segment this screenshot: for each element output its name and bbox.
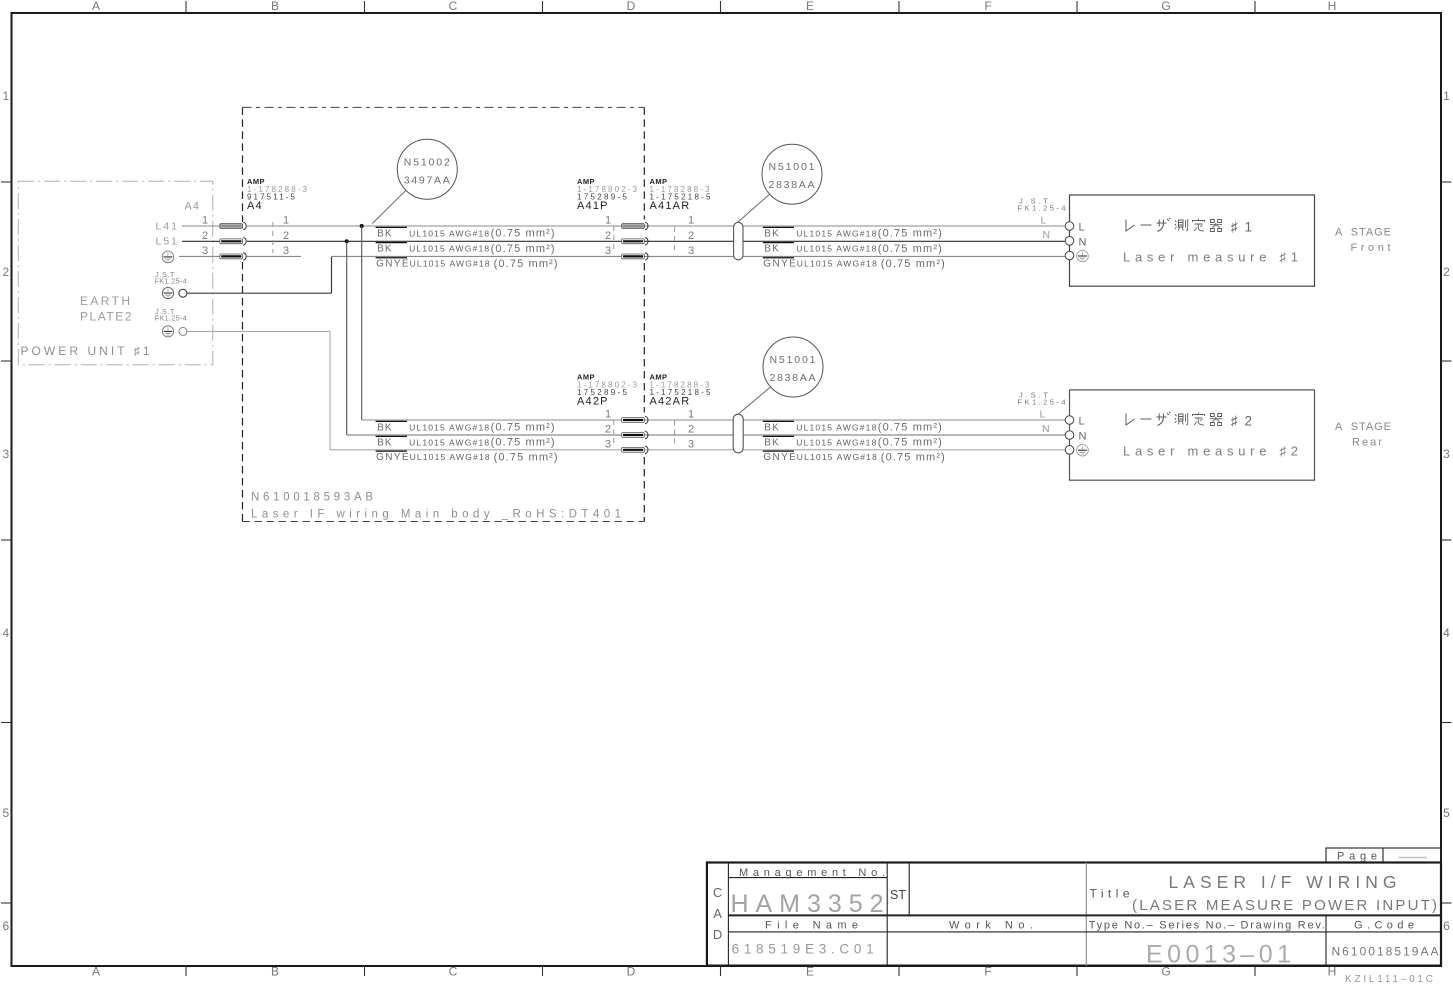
connector A42P (AMP 1-178802-3 / 175289-5) [577, 373, 638, 451]
svg-text:(0.75 mm²): (0.75 mm²) [878, 422, 942, 434]
svg-text:1: 1 [688, 409, 694, 421]
svg-text:(0.75 mm²): (0.75 mm²) [491, 422, 555, 434]
svg-text:A41AR: A41AR [650, 200, 691, 212]
svg-text:A4: A4 [185, 201, 200, 213]
svg-text:N51001: N51001 [770, 354, 817, 366]
svg-text:BK: BK [764, 422, 779, 433]
cable clamp bank2 [733, 414, 743, 453]
svg-text:C: C [449, 965, 458, 979]
svg-text:5: 5 [1443, 806, 1450, 820]
svg-text:3497AA: 3497AA [404, 174, 451, 186]
wire label BK bank2 right row2 [763, 436, 942, 448]
svg-text:1: 1 [688, 215, 694, 227]
svg-text:L: L [1040, 409, 1046, 421]
node A4 terminal block label [185, 201, 200, 213]
svg-text:3: 3 [688, 245, 694, 257]
svg-text:A42AR: A42AR [650, 396, 691, 408]
svg-text:1: 1 [1443, 89, 1450, 103]
svg-text:A42P: A42P [577, 396, 609, 408]
svg-text:3: 3 [2, 447, 9, 461]
wire label BK bank1 left row1 [376, 227, 555, 239]
svg-text:(0.75 mm²): (0.75 mm²) [878, 228, 942, 240]
svg-text:2: 2 [605, 424, 611, 436]
node L wire label (bank2) [1040, 409, 1046, 421]
drawing format code KZIL111-01C [1345, 974, 1433, 985]
svg-text:A STAGE: A STAGE [1335, 421, 1391, 433]
label A STAGE Rear [1335, 421, 1391, 449]
wire L41 [156, 220, 221, 232]
connector A4 (AMP 1-178288-3 / 917511-5) [202, 177, 308, 260]
svg-text:6: 6 [2, 919, 9, 933]
title block work no [949, 919, 1033, 931]
svg-text:Title: Title [1090, 887, 1130, 901]
svg-text:6: 6 [1443, 919, 1450, 933]
svg-text:2: 2 [202, 230, 208, 242]
svg-text:1: 1 [605, 409, 611, 421]
svg-text:(0.75 mm²): (0.75 mm²) [881, 258, 945, 270]
svg-text:G: G [1161, 0, 1170, 13]
wire bank2 row PE [330, 449, 1066, 451]
wire label BK bank2 left row1 [376, 421, 555, 433]
wire label GNYE bank2 right row3 [763, 451, 945, 463]
svg-text:2: 2 [283, 230, 289, 242]
terminal label J.S.T FK1.25-4 (laser measure #1) [1018, 196, 1066, 212]
title block page cell [1326, 848, 1441, 863]
wire stub A4 pin3 [247, 255, 301, 257]
wire label BK bank1 right row1 [763, 227, 942, 239]
svg-text:L41: L41 [156, 220, 178, 232]
svg-text:5: 5 [2, 806, 9, 820]
title block management no [731, 867, 886, 918]
node L wire label (bank1) [1041, 215, 1047, 227]
svg-text:N610018519AA: N610018519AA [1332, 945, 1439, 959]
wire feed junction row1 to bank2 row1 [362, 226, 1066, 420]
title block file name [732, 919, 874, 956]
svg-text:4: 4 [1443, 626, 1450, 640]
wire earth plate upper to GNYE #1 [187, 256, 331, 293]
wire L51 [156, 236, 221, 248]
svg-text:BK: BK [377, 422, 392, 433]
svg-text:D: D [713, 927, 722, 942]
balloon N51001 2838AA (bank2) [738, 337, 823, 414]
title block frame [707, 863, 1441, 966]
main body part number N610018593AB [251, 492, 373, 504]
svg-text:2: 2 [688, 424, 694, 436]
svg-text:BK: BK [764, 228, 779, 239]
svg-text:C: C [449, 0, 458, 13]
wire bank1 row N (pin2) to laser measure #1 [247, 240, 1066, 242]
svg-text:ST: ST [890, 888, 906, 902]
svg-text:L51: L51 [156, 236, 178, 248]
label EARTH PLATE2 [80, 294, 132, 324]
laser measure #2 unit box [1065, 390, 1314, 480]
svg-text:Rear: Rear [1352, 437, 1382, 449]
svg-text:3: 3 [1443, 447, 1450, 461]
svg-text:C: C [713, 885, 722, 900]
svg-text:BK: BK [764, 437, 779, 448]
svg-text:3: 3 [605, 245, 611, 257]
node junction row2 [345, 239, 349, 243]
svg-text:N51002: N51002 [404, 156, 451, 168]
laser IF wiring main body boundary (dashed box) [243, 107, 645, 521]
connector A41AR (AMP 1-178288-3 / 1-175218-5) [622, 177, 711, 260]
label POWER UNIT #1 [21, 344, 150, 358]
wire label BK bank1 right row2 [763, 243, 942, 255]
svg-text:L: L [1079, 222, 1085, 234]
title block G.Code [1332, 919, 1439, 958]
connector A42AR (AMP 1-178288-3 / 1-175218-5) [622, 373, 711, 454]
svg-text:N: N [1079, 431, 1087, 443]
svg-text:(0.75 mm²): (0.75 mm²) [494, 451, 558, 463]
svg-text:2: 2 [605, 230, 611, 242]
svg-text:A4: A4 [247, 200, 263, 212]
wire label GNYE bank1 right row3 [763, 258, 945, 270]
svg-text:FK1.25-4: FK1.25-4 [155, 277, 187, 286]
svg-text:(0.75 mm²): (0.75 mm²) [881, 451, 945, 463]
wire earth plate lower to GNYE #2 [187, 331, 330, 449]
wire label BK bank2 right row1 [763, 421, 942, 433]
wire bank1 row PE to laser measure #1 [332, 255, 1066, 257]
svg-text:N: N [1043, 229, 1051, 241]
svg-text:(0.75 mm²): (0.75 mm²) [491, 243, 555, 255]
svg-text:H: H [1328, 0, 1337, 13]
svg-text:L: L [1079, 416, 1085, 428]
svg-text:(LASER MEASURE POWER INPUT): (LASER MEASURE POWER INPUT) [1132, 897, 1437, 914]
svg-text:BK: BK [377, 244, 392, 255]
svg-text:N: N [1042, 423, 1050, 435]
svg-text:A41P: A41P [577, 200, 609, 212]
svg-text:N: N [1079, 237, 1087, 249]
wire feed junction row2 to bank2 row2 [347, 241, 1066, 435]
svg-text:♯ 2: ♯ 2 [1231, 414, 1254, 429]
svg-text:A STAGE: A STAGE [1335, 227, 1391, 239]
svg-text:KZIL111–01C: KZIL111–01C [1345, 974, 1433, 985]
label A STAGE Front [1335, 227, 1391, 255]
wire label GNYE bank2 left row3 [376, 451, 558, 463]
svg-text:3: 3 [283, 245, 289, 257]
node N wire label (bank1) [1043, 229, 1051, 241]
title block type/series/drawing rev [1089, 920, 1325, 969]
title block ST cell [890, 888, 906, 902]
svg-text:(0.75 mm²): (0.75 mm²) [491, 437, 555, 449]
svg-text:E: E [806, 0, 814, 13]
svg-text:B: B [271, 965, 279, 979]
svg-text:(0.75 mm²): (0.75 mm²) [491, 228, 555, 240]
svg-text:B: B [271, 0, 279, 13]
power unit #1 enclosure (chain line box) [18, 181, 213, 364]
svg-text:F: F [984, 0, 991, 13]
wire bank1 row L (pin1) to laser measure #1 [247, 225, 1066, 227]
terminal J.S.T FK1.25-4 (earth plate upper) [155, 270, 187, 299]
balloon N51002 3497AA [372, 139, 457, 223]
svg-text:♯ 1: ♯ 1 [1231, 220, 1254, 235]
svg-text:2: 2 [2, 265, 9, 279]
svg-text:2: 2 [688, 230, 694, 242]
svg-text:BK: BK [764, 244, 779, 255]
svg-text:(0.75 mm²): (0.75 mm²) [878, 243, 942, 255]
connector A41P (AMP 1-178802-3 / 175289-5) [577, 177, 638, 257]
terminal label J.S.T FK1.25-4 (laser measure #2) [1018, 390, 1066, 406]
node N wire label (bank2) [1042, 423, 1050, 435]
svg-text:Type No.– Series No.– Drawing: Type No.– Series No.– Drawing Rev. [1089, 920, 1325, 932]
svg-text:2838AA: 2838AA [769, 179, 816, 191]
wire label BK bank1 left row2 [376, 243, 555, 255]
cable clamp bank1 [734, 222, 743, 260]
main body description Laser IF wiring Main body _RoHS:DT401 [251, 509, 621, 521]
svg-text:EARTH: EARTH [80, 294, 130, 308]
svg-text:BK: BK [377, 437, 392, 448]
wire label GNYE bank1 left row3 [376, 258, 558, 270]
terminal J.S.T FK1.25-4 (earth plate lower) [155, 307, 187, 337]
title block title [1090, 872, 1438, 914]
svg-text:3: 3 [688, 438, 694, 450]
node junction row1 [360, 224, 364, 228]
svg-text:A: A [92, 0, 100, 13]
svg-text:3: 3 [605, 438, 611, 450]
balloon N51001 2838AA (bank1) [738, 144, 822, 222]
svg-text:L: L [1041, 215, 1047, 227]
svg-text:PLATE2: PLATE2 [80, 310, 132, 324]
svg-text:1: 1 [202, 215, 208, 227]
svg-text:N51001: N51001 [769, 161, 816, 173]
svg-text:1: 1 [283, 215, 289, 227]
svg-text:BK: BK [377, 228, 392, 239]
svg-text:D: D [627, 0, 636, 13]
svg-text:D: D [627, 965, 636, 979]
svg-text:3: 3 [202, 245, 208, 257]
svg-text:(0.75 mm²): (0.75 mm²) [878, 437, 942, 449]
svg-text:2: 2 [1443, 265, 1450, 279]
svg-text:FK1.25-4: FK1.25-4 [155, 313, 187, 322]
svg-text:4: 4 [2, 626, 9, 640]
svg-text:1: 1 [2, 89, 9, 103]
svg-text:A: A [713, 906, 722, 921]
laser measure #1 unit box [1065, 195, 1314, 286]
svg-text:A: A [92, 965, 100, 979]
svg-text:1: 1 [605, 215, 611, 227]
wire label BK bank2 left row2 [376, 436, 555, 448]
svg-text:(0.75 mm²): (0.75 mm²) [494, 258, 558, 270]
ground (power unit pin 3) [162, 251, 220, 263]
svg-text:2838AA: 2838AA [770, 372, 817, 384]
title block CAD label [713, 885, 722, 942]
